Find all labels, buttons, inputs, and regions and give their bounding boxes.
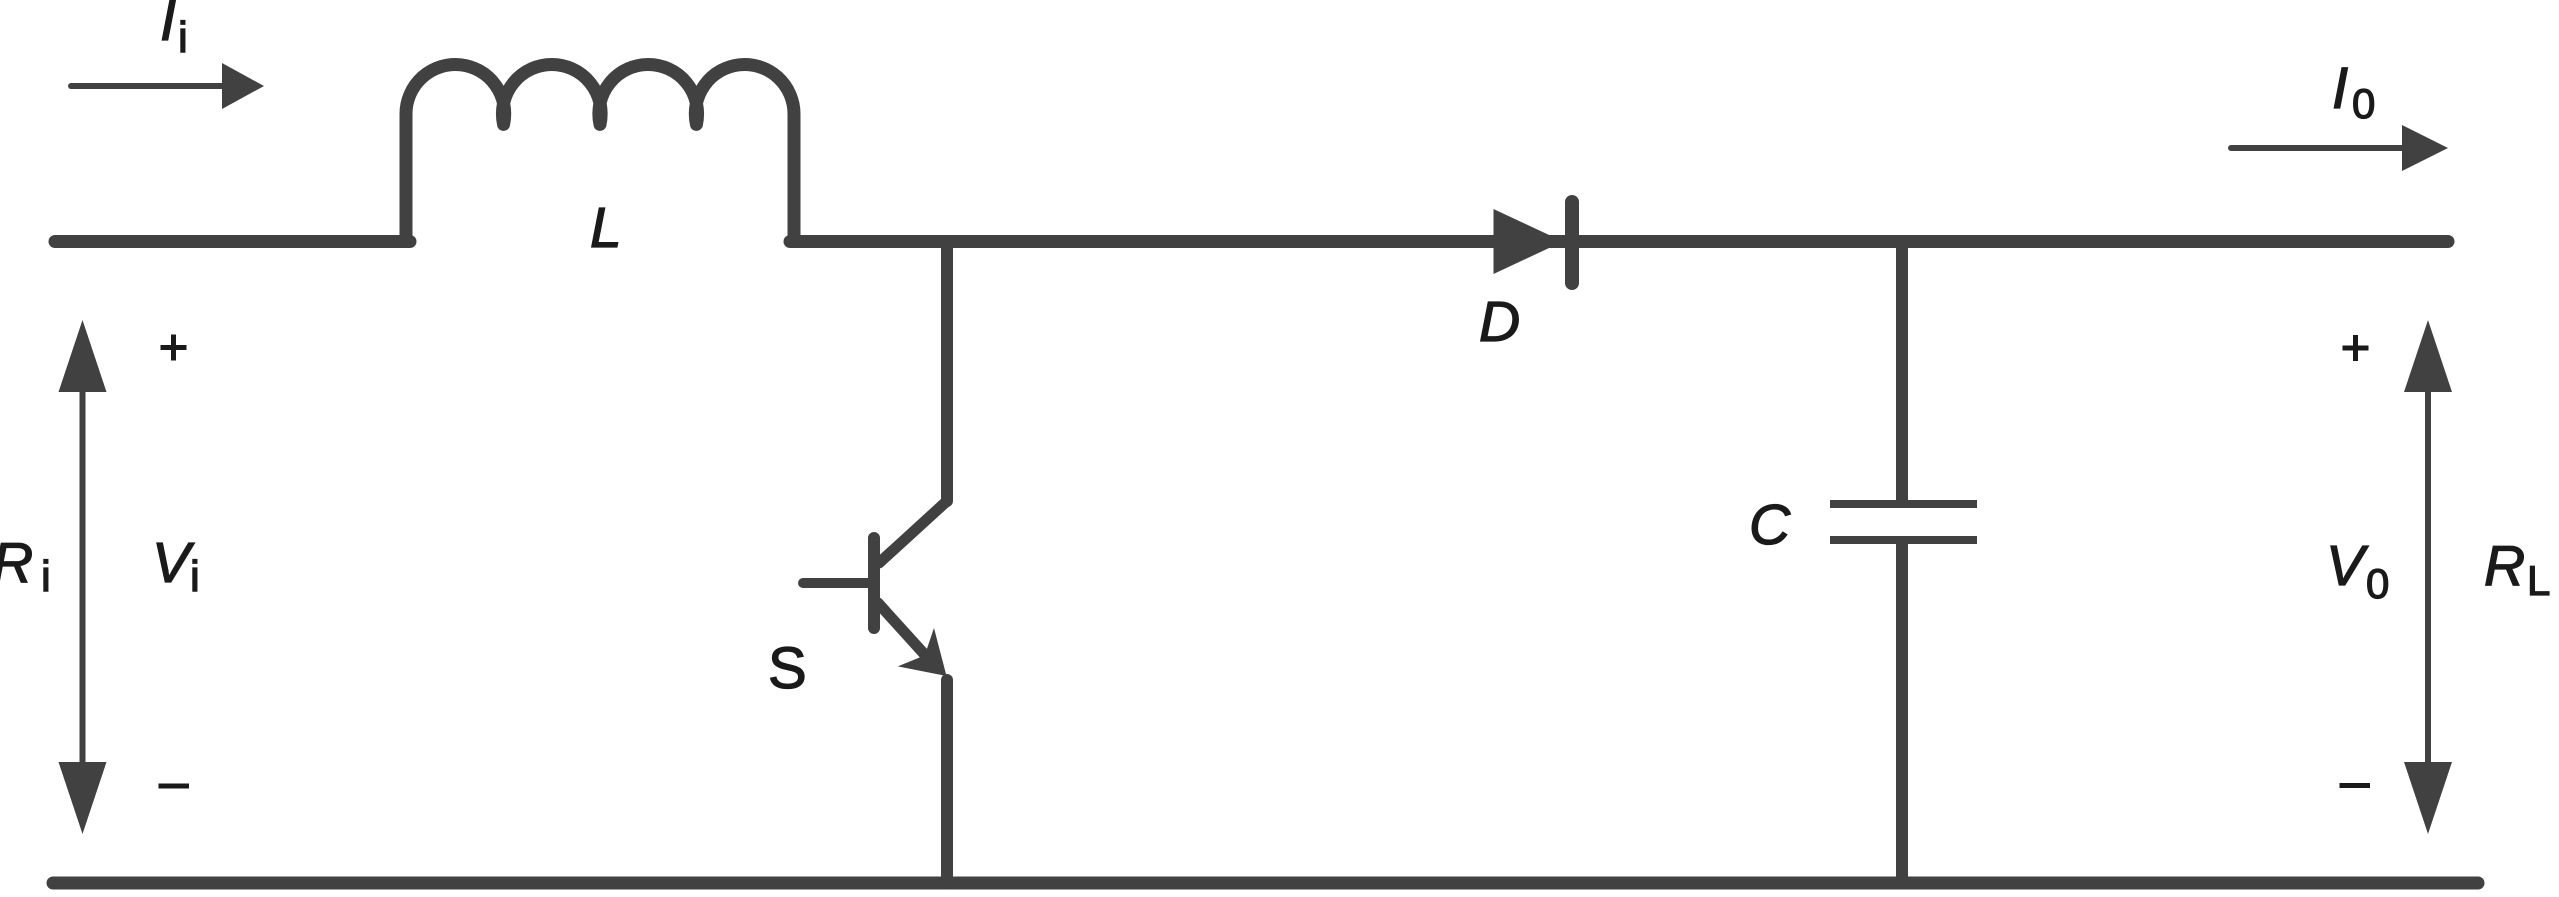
- node label Ri: [0, 531, 51, 601]
- svg-text:D: D: [1479, 290, 1520, 354]
- base lead: [803, 578, 874, 588]
- arrow input voltage Vi double-headed: [59, 320, 107, 834]
- emitter lead: [878, 603, 926, 656]
- svg-text:I: I: [160, 0, 176, 53]
- minus sign input: [159, 784, 190, 789]
- svg-text:S: S: [768, 636, 807, 701]
- arrow output voltage V0 double-headed: [2404, 320, 2452, 834]
- wire bottom bus: [53, 877, 2478, 890]
- node label Vi: [152, 531, 200, 601]
- svg-text:0: 0: [2366, 560, 2389, 607]
- wire transistor emitter to bottom bus: [941, 680, 953, 883]
- minus sign output: [2340, 783, 2371, 788]
- svg-text:R: R: [2484, 534, 2525, 598]
- svg-text:C: C: [1749, 493, 1791, 557]
- collector lead: [879, 501, 947, 563]
- wire capacitor branch top: [1896, 242, 1908, 504]
- svg-text:R: R: [0, 531, 33, 595]
- svg-text:V: V: [2326, 534, 2369, 598]
- node label V0: [2326, 534, 2389, 607]
- wire top bus left segment: [55, 235, 410, 248]
- svg-text:L: L: [2527, 557, 2550, 604]
- node label Ii: [160, 0, 188, 62]
- arrow input current Ii: [71, 63, 264, 109]
- base bar: [868, 538, 880, 628]
- transistor S symbol: [803, 501, 947, 676]
- svg-text:i: i: [178, 13, 188, 62]
- svg-text:i: i: [190, 552, 200, 601]
- svg-text:0: 0: [2352, 80, 2375, 127]
- arrow output current I0: [2231, 125, 2448, 171]
- svg-text:i: i: [41, 552, 51, 601]
- node label RL: [2484, 534, 2550, 604]
- svg-text:V: V: [152, 531, 195, 595]
- plus sign input: [161, 335, 187, 361]
- plus sign output: [2343, 335, 2369, 361]
- node label I0: [2332, 56, 2375, 127]
- diode D: [1494, 202, 1573, 283]
- wire capacitor branch bottom: [1896, 540, 1908, 883]
- wire top bus right segment: [790, 235, 2448, 248]
- capacitor C: [1830, 504, 1977, 540]
- svg-text:I: I: [2332, 56, 2348, 121]
- emitter arrowhead: [898, 628, 947, 676]
- inductor L: [406, 64, 794, 241]
- svg-text:L: L: [590, 196, 622, 260]
- transistor Q S collector wire: [941, 242, 953, 502]
